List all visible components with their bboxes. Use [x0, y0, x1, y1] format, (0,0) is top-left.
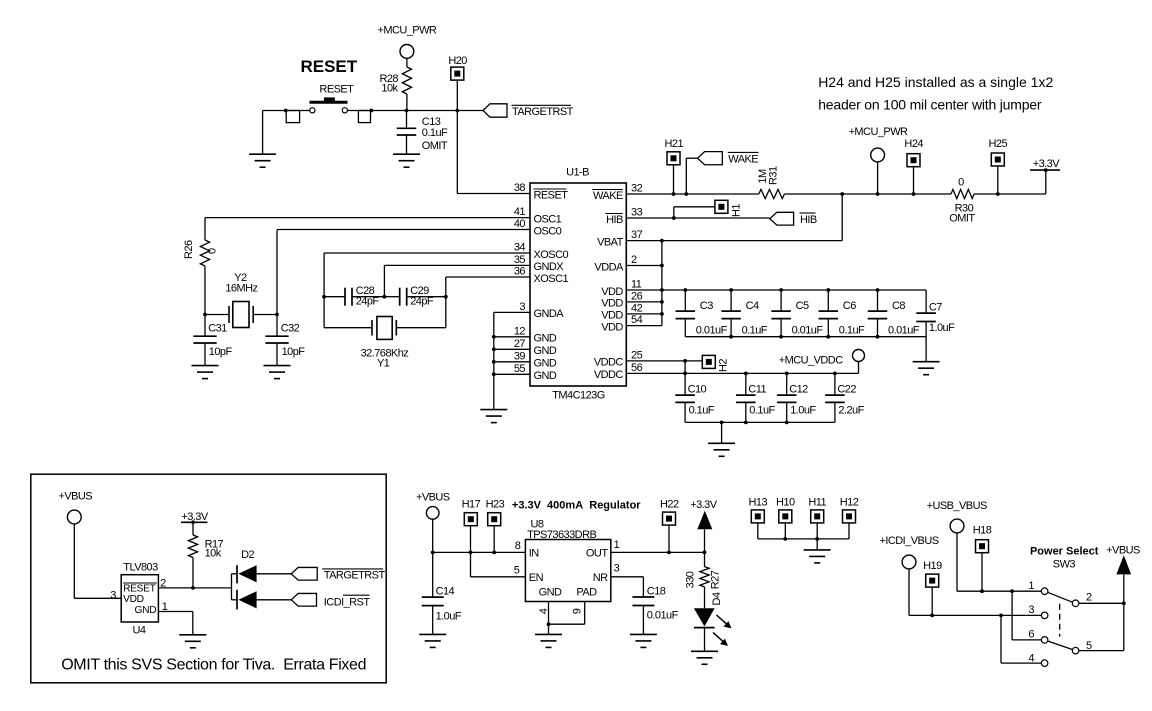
svg-text:R27: R27 — [710, 570, 722, 589]
svg-text:C6: C6 — [843, 300, 856, 312]
svg-text:H19: H19 — [923, 560, 942, 572]
wire VDDA — [626, 265, 662, 267]
wire decoupling bottom rail — [685, 335, 926, 339]
wire +VBUS to IN — [431, 551, 526, 555]
svg-text:0.1uF: 0.1uF — [689, 404, 715, 416]
note text OMIT SVS — [61, 657, 366, 674]
svg-text:24pF: 24pF — [410, 296, 434, 308]
wire VDD power vertical — [660, 241, 664, 326]
net flag HIB — [770, 212, 817, 226]
svg-text:+VBUS: +VBUS — [58, 491, 92, 503]
svg-text:26: 26 — [631, 290, 643, 302]
resistor R28 10k — [379, 67, 411, 95]
pin 37 VBAT (U1-B right) — [597, 229, 642, 248]
svg-text:11: 11 — [631, 279, 642, 291]
svg-text:+3.3V: +3.3V — [690, 499, 718, 511]
wire pin36 XOSC1 — [446, 276, 530, 278]
wire ICDI to SW3 pin3 — [909, 614, 1041, 618]
svg-text:H10: H10 — [776, 497, 795, 509]
svg-text:C14: C14 — [436, 585, 455, 597]
svg-text:WAKE: WAKE — [593, 190, 623, 202]
capacitor C31 10pF — [193, 315, 232, 366]
svg-text:27: 27 — [514, 338, 526, 350]
svg-text:0.1uF: 0.1uF — [742, 324, 768, 336]
svg-text:VDDC: VDDC — [594, 369, 624, 381]
svg-text:35: 35 — [514, 254, 526, 266]
svg-text:C5: C5 — [796, 300, 809, 312]
wire pin55 GND — [494, 373, 530, 375]
switch SW3 — [1041, 588, 1079, 666]
pin 5 EN (U8) — [514, 564, 544, 584]
svg-text:0.1uF: 0.1uF — [839, 324, 865, 336]
power net +3.3V (regulator out) — [690, 499, 718, 553]
svg-text:H25: H25 — [989, 138, 1008, 150]
power net +VBUS (SW3 arrow) — [1106, 544, 1140, 574]
power net +MCU_PWR (rail) — [849, 126, 908, 194]
wire +MCU_PWR to R28 — [406, 58, 408, 67]
capacitor C18 0.01uF — [632, 585, 678, 634]
svg-text:OSC0: OSC0 — [534, 225, 562, 237]
wire pin41 OSC1 — [205, 217, 530, 219]
header H18 — [973, 525, 992, 592]
pin 39 GND (U1-B left) — [514, 350, 557, 369]
svg-text:3: 3 — [614, 563, 620, 575]
wire gnd to switch — [263, 110, 310, 112]
svg-text:H18: H18 — [973, 525, 992, 537]
svg-text:+ICDI_VBUS: +ICDI_VBUS — [880, 535, 939, 547]
svg-text:H2: H2 — [718, 359, 730, 372]
wire OUT to +3.3V — [611, 551, 707, 555]
svg-text:RESET: RESET — [534, 189, 569, 201]
power net +VBUS (SVS) — [58, 491, 121, 599]
pin 33 HIB (U1-B right) — [605, 207, 642, 226]
pin 26 VDD (U1-B right) — [601, 290, 642, 309]
svg-text:C32: C32 — [281, 323, 300, 335]
svg-text:6: 6 — [1028, 629, 1034, 641]
svg-text:header on 100 mil center with: header on 100 mil center with jumper — [818, 97, 1042, 113]
capacitor C6 0.1uF — [819, 290, 865, 337]
svg-text:+MCU_PWR: +MCU_PWR — [849, 126, 908, 138]
wire pin39 GND — [494, 361, 530, 363]
net flag WAKE — [686, 152, 758, 194]
pushbutton SW RESET — [284, 97, 373, 122]
svg-text:GND: GND — [534, 370, 557, 382]
wire H20 to reset net and pin 38 — [455, 80, 459, 193]
svg-text:GND: GND — [135, 605, 157, 616]
wire VDD pin26 — [626, 301, 662, 303]
svg-text:32: 32 — [631, 183, 643, 195]
net flag TARGETRST (SVS) — [291, 567, 385, 581]
svg-text:VDD: VDD — [601, 286, 623, 298]
svg-text:OMIT: OMIT — [422, 140, 448, 152]
svg-text:NR: NR — [593, 572, 608, 584]
svg-text:330: 330 — [685, 571, 697, 588]
svg-text:VBAT: VBAT — [597, 236, 624, 248]
crystal Y1 32.768Khz — [324, 317, 446, 370]
ground (U4) — [179, 635, 206, 648]
svg-text:3: 3 — [110, 589, 116, 601]
wire SW3 pin5 to +VBUS — [1079, 574, 1124, 650]
svg-text:56: 56 — [631, 362, 643, 374]
svg-text:C12: C12 — [789, 384, 808, 396]
svg-text:55: 55 — [514, 363, 526, 375]
svg-text:54: 54 — [631, 314, 643, 326]
label SW3 pin numbers — [1028, 580, 1092, 665]
label Power Select SW3 — [1030, 546, 1099, 571]
wire GND bus vertical — [492, 312, 496, 409]
header H20 — [448, 55, 467, 80]
wire NR to C18 — [611, 577, 644, 597]
svg-text:+3.3V: +3.3V — [1033, 158, 1061, 170]
svg-text:2: 2 — [631, 254, 637, 266]
pin 1 OUT (U8) — [586, 539, 620, 560]
label RESET (bold) — [300, 57, 357, 76]
wire XOSC1 vertical — [444, 277, 448, 328]
wire VDDC gnd stem — [721, 422, 723, 443]
wire R28 to reset net — [405, 94, 409, 112]
svg-text:16MHz: 16MHz — [225, 282, 257, 294]
svg-text:42: 42 — [631, 302, 643, 314]
pin 4 GND (U8) — [538, 586, 562, 614]
svg-text:0.1uF: 0.1uF — [422, 127, 448, 139]
svg-text:XOSC1: XOSC1 — [534, 273, 569, 285]
svg-text:TM4C123G: TM4C123G — [552, 390, 604, 402]
header H22 — [660, 498, 679, 552]
led D4 — [694, 592, 732, 651]
svg-text:VDD: VDD — [123, 594, 144, 605]
capacitor C3 0.01uF — [676, 290, 728, 337]
svg-text:VDDC: VDDC — [594, 357, 624, 369]
pin 54 VDD (U1-B right) — [601, 314, 642, 333]
svg-text:C31: C31 — [208, 323, 227, 335]
svg-text:+VBUS: +VBUS — [1106, 544, 1140, 556]
svg-text:+VBUS: +VBUS — [416, 492, 450, 504]
svg-text:34: 34 — [514, 242, 526, 254]
svg-text:OSC1: OSC1 — [534, 213, 562, 225]
svg-text:1.0uF: 1.0uF — [790, 404, 816, 416]
wire VDD pin54 — [626, 325, 662, 327]
svg-text:36: 36 — [514, 266, 526, 278]
power net +MCU_PWR (R28 pullup) — [377, 25, 436, 59]
wire pin12 GND — [494, 336, 530, 338]
pin 56 VDDC (U1-B right) — [594, 362, 643, 381]
svg-text:12: 12 — [514, 325, 526, 337]
svg-text:+3.3V 400mA Regulator: +3.3V 400mA Regulator — [512, 500, 641, 512]
capacitor C7 1.0uF — [916, 290, 955, 362]
pin 2 VDDA (U1-B right) — [594, 254, 637, 273]
power net +3.3V (R17) — [181, 511, 209, 524]
wire pin27 GND — [494, 348, 530, 350]
wire pin3 GNDA — [494, 311, 530, 313]
svg-text:0: 0 — [207, 248, 219, 254]
crystal Y2 16MHz — [203, 272, 279, 327]
ground (U8) — [535, 634, 562, 647]
svg-text:ICDI_RST: ICDI_RST — [324, 597, 371, 609]
svg-text:VDD: VDD — [601, 298, 623, 310]
wire header gnd bus — [758, 537, 849, 550]
header H13 — [749, 497, 768, 539]
svg-text:0: 0 — [958, 177, 964, 189]
svg-text:H22: H22 — [660, 498, 679, 510]
capacitor C11 0.1uF — [736, 373, 775, 422]
header H2 — [702, 355, 729, 372]
svg-text:33: 33 — [631, 207, 643, 219]
svg-text:TARGETRST: TARGETRST — [324, 570, 386, 582]
svg-text:H21: H21 — [665, 138, 684, 150]
svg-text:0.01uF: 0.01uF — [888, 324, 920, 336]
ground (reset switch) — [249, 154, 276, 167]
svg-text:GNDX: GNDX — [534, 261, 565, 273]
header H23 — [486, 498, 505, 552]
SVS section border — [31, 474, 386, 683]
pin 12 GND (U1-B left) — [514, 325, 557, 344]
op-amp ic U1-B TM4C123G body — [530, 167, 626, 402]
svg-text:C22: C22 — [837, 384, 856, 396]
svg-text:VDDA: VDDA — [594, 261, 624, 273]
pin 11 VDD (U1-B right) — [601, 279, 642, 298]
wire VDDC bottom rail — [685, 421, 835, 425]
svg-text:HIB: HIB — [800, 214, 817, 226]
ground (C32) — [264, 366, 291, 379]
svg-text:H24 and H25 installed as a sin: H24 and H25 installed as a single 1x2 — [818, 74, 1053, 90]
power net +USB_VBUS — [927, 500, 987, 591]
ground (C18) — [630, 634, 657, 647]
wire SW3 pin2 to +VBUS — [1079, 601, 1126, 605]
svg-text:0.1uF: 0.1uF — [749, 404, 775, 416]
capacitor C29 24pF — [384, 285, 445, 308]
diode D2 (dual, common cathode) — [232, 549, 292, 610]
svg-text:2: 2 — [1086, 592, 1092, 604]
resistor R17 10k — [188, 522, 223, 590]
svg-text:+MCU_PWR: +MCU_PWR — [377, 25, 436, 37]
ground (C13) — [393, 154, 420, 167]
svg-text:H24: H24 — [904, 138, 923, 150]
wire pin34 XOSC0 — [324, 252, 530, 254]
wire U4 pin1 to ground — [158, 612, 192, 635]
svg-text:C11: C11 — [748, 384, 766, 396]
svg-text:1: 1 — [614, 539, 620, 551]
svg-text:SW3: SW3 — [1053, 559, 1076, 571]
svg-text:H12: H12 — [840, 497, 859, 509]
wire XOSC0 vertical — [322, 253, 326, 328]
resistor R30 0 OMIT — [949, 177, 975, 225]
pin 42 VDD (U1-B right) — [601, 302, 642, 321]
ground (VDDC caps) — [708, 443, 735, 456]
svg-text:GND: GND — [534, 358, 557, 370]
svg-text:WAKE: WAKE — [728, 154, 758, 166]
svg-text:TLV803: TLV803 — [123, 562, 158, 574]
power net +MCU_VDDC — [779, 350, 865, 374]
ground (D4) — [691, 651, 718, 664]
pin 38 RESET (U1-B left) — [514, 182, 568, 201]
svg-text:U1-B: U1-B — [566, 167, 589, 179]
resistor R26 0 — [183, 218, 219, 315]
header H24 — [904, 138, 923, 194]
svg-text:10pF: 10pF — [282, 346, 306, 358]
svg-text:H23: H23 — [486, 498, 505, 510]
svg-text:C18: C18 — [647, 585, 666, 597]
svg-text:4: 4 — [1028, 653, 1034, 665]
svg-text:41: 41 — [514, 206, 526, 218]
pin 3 GNDA (U1-B left) — [519, 301, 564, 320]
svg-text:Power Select: Power Select — [1030, 546, 1099, 558]
wire OSC0 vertical — [276, 230, 278, 315]
svg-text:OMIT: OMIT — [949, 213, 975, 225]
svg-text:TARGETRST: TARGETRST — [512, 106, 574, 118]
svg-text:PAD: PAD — [576, 586, 597, 598]
pin GND (U4) — [135, 601, 168, 616]
svg-text:3: 3 — [1028, 604, 1034, 616]
svg-text:10k: 10k — [381, 83, 398, 95]
wire HIB — [626, 217, 770, 219]
pin 25 VDDC (U1-B right) — [594, 349, 643, 368]
svg-text:39: 39 — [514, 350, 526, 362]
svg-text:VDD: VDD — [601, 321, 623, 333]
ic U8 TPS73633DRB body — [525, 519, 610, 602]
svg-text:C8: C8 — [892, 300, 905, 312]
svg-text:+3.3V: +3.3V — [181, 511, 209, 523]
svg-text:RESET: RESET — [300, 57, 357, 76]
capacitor C22 2.2uF — [825, 373, 864, 422]
capacitor C14 1.0uF — [422, 552, 462, 634]
note text H24/H25 — [818, 74, 1053, 113]
wire switch to reset net — [348, 110, 484, 112]
svg-text:R31: R31 — [768, 166, 780, 185]
svg-text:OUT: OUT — [586, 548, 608, 560]
header H17 — [462, 498, 481, 525]
svg-text:10k: 10k — [205, 548, 222, 560]
svg-text:R26: R26 — [183, 240, 195, 259]
wire VDDC rail — [626, 372, 858, 376]
capacitor C8 0.01uF — [868, 290, 920, 337]
wire switch left leg to ground — [262, 111, 264, 155]
svg-text:D2: D2 — [241, 549, 254, 561]
svg-text:C3: C3 — [700, 300, 713, 312]
wire USB to SW3 pin1 — [957, 589, 1041, 593]
svg-text:H1: H1 — [731, 204, 743, 217]
ground (C7) — [913, 362, 940, 375]
pin 34 XOSC0 (U1-B left) — [514, 242, 569, 261]
net flag TARGETRST (top) — [483, 104, 574, 118]
svg-text:VDD: VDD — [601, 310, 623, 322]
capacitor C32 10pF — [265, 315, 305, 366]
svg-text:GND: GND — [539, 586, 562, 598]
svg-text:TPS73633DRB: TPS73633DRB — [527, 529, 596, 541]
wire U8 GND PAD to ground — [547, 602, 585, 635]
svg-text:Y1: Y1 — [377, 358, 390, 370]
svg-text:1.0uF: 1.0uF — [929, 322, 955, 334]
svg-text:D4: D4 — [711, 592, 723, 605]
pin RESET (U4) — [123, 578, 166, 595]
svg-text:1.0uF: 1.0uF — [436, 610, 462, 622]
svg-text:H20: H20 — [448, 55, 467, 67]
power net +ICDI_VBUS — [880, 535, 939, 615]
wire pin40 OSC0 — [277, 229, 530, 231]
power net +3.3V (rail end) — [1030, 158, 1060, 194]
wire WAKE rail left — [626, 192, 759, 196]
svg-text:1: 1 — [1028, 580, 1034, 592]
header H10 — [776, 497, 795, 539]
wire R31 to R30 — [784, 192, 951, 196]
pin 27 GND (U1-B left) — [514, 338, 557, 357]
pin 3 NR (U8) — [593, 563, 620, 584]
net flag ICDI_RST — [291, 593, 370, 608]
pin 8 IN (U8) — [515, 540, 540, 560]
svg-text:H11: H11 — [808, 497, 826, 509]
svg-text:2.2uF: 2.2uF — [838, 404, 864, 416]
svg-text:EN: EN — [529, 572, 544, 584]
pin 32 WAKE (U1-B right) — [592, 183, 642, 202]
ground (C31) — [192, 366, 219, 379]
svg-text:XOSC0: XOSC0 — [534, 249, 569, 261]
ground (headers) — [804, 550, 831, 563]
wire pin38 to H20 net — [457, 193, 530, 195]
svg-text:3: 3 — [519, 301, 525, 313]
capacitor C5 0.01uF — [771, 290, 823, 337]
header H11 — [808, 497, 826, 539]
svg-text:0.01uF: 0.01uF — [696, 324, 728, 336]
svg-text:RESET: RESET — [319, 83, 354, 95]
svg-text:GNDA: GNDA — [534, 308, 565, 320]
svg-text:C7: C7 — [929, 301, 942, 313]
wire VDDC pin25 — [626, 359, 702, 373]
svg-text:+MCU_VDDC: +MCU_VDDC — [779, 355, 843, 367]
label regulator title — [512, 500, 641, 512]
wire pin3 to pin4 — [1001, 615, 1041, 663]
ic U4 TLV803 body — [121, 562, 158, 637]
wire VBAT — [626, 194, 842, 243]
capacitor C10 0.1uF — [675, 373, 714, 422]
header H12 — [840, 497, 859, 539]
capacitor C12 1.0uF — [777, 373, 816, 422]
label RESET (switch name) — [319, 83, 354, 95]
svg-text:0.01uF: 0.01uF — [792, 324, 824, 336]
capacitor C4 0.1uF — [721, 290, 767, 337]
svg-text:9: 9 — [572, 608, 584, 614]
capacitor C13 0.1uF OMIT — [397, 111, 448, 155]
svg-text:40: 40 — [514, 218, 526, 230]
wire R30 to +3.3V — [974, 192, 1046, 196]
wire U4 pin2 to D2 — [158, 587, 231, 589]
svg-text:U4: U4 — [133, 625, 146, 637]
pin 35 GNDX (U1-B left) — [514, 254, 564, 273]
svg-text:10pF: 10pF — [209, 346, 233, 358]
header H21 — [665, 138, 684, 194]
wire VDD top rail — [626, 288, 926, 292]
svg-text:H13: H13 — [749, 497, 768, 509]
wire pin35 GNDX — [384, 265, 530, 296]
svg-text:8: 8 — [515, 540, 521, 552]
resistor R27 330 — [685, 552, 722, 608]
svg-text:0.01uF: 0.01uF — [647, 610, 679, 622]
svg-text:HIB: HIB — [606, 214, 623, 226]
svg-text:OMIT this SVS Section for Tiva: OMIT this SVS Section for Tiva. Errata F… — [61, 657, 366, 674]
header H19 — [923, 560, 942, 615]
svg-text:GND: GND — [534, 345, 557, 357]
pin 36 XOSC1 (U1-B left) — [514, 266, 569, 285]
ground (C14) — [419, 634, 446, 647]
header H1 — [672, 200, 743, 220]
pin 55 GND (U1-B left) — [514, 363, 557, 382]
pin 41 OSC1 (U1-B left) — [514, 206, 562, 225]
svg-text:25: 25 — [631, 349, 643, 361]
wire H17 to EN — [471, 526, 526, 577]
wire pin1 to pin6 — [1012, 591, 1041, 640]
svg-text:38: 38 — [514, 182, 526, 194]
pin 9 PAD (U8) — [572, 586, 598, 614]
svg-text:37: 37 — [631, 229, 643, 241]
svg-text:5: 5 — [514, 564, 520, 576]
